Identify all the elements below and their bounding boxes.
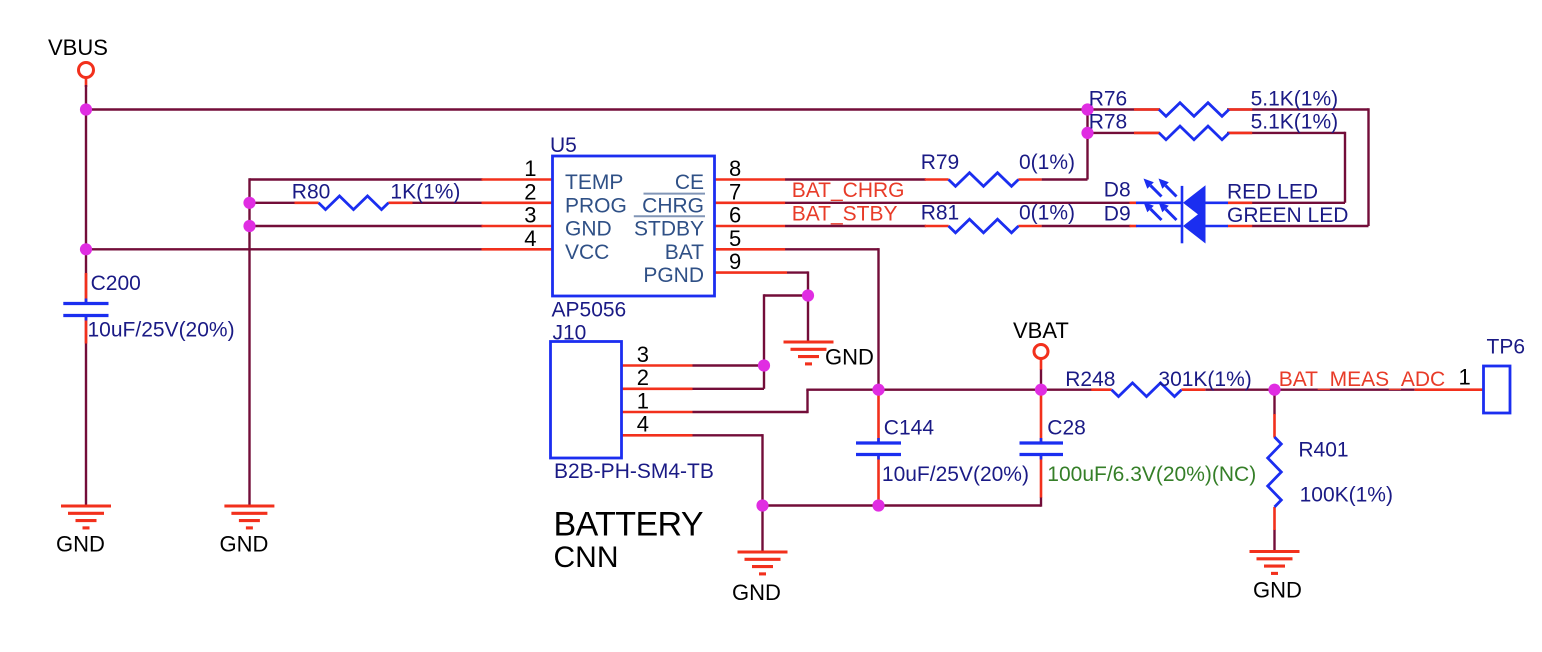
designator D8 and name xyxy=(1104,179,1318,204)
svg-text:C200: C200 xyxy=(91,272,141,295)
wire VBAT terminal stub lower part xyxy=(1040,369,1042,390)
svg-text:R248: R248 xyxy=(1065,368,1115,391)
pin stub U5 pin3 xyxy=(482,225,553,228)
node VBUS terminal circle xyxy=(79,63,94,88)
pin stub U5 pin7 xyxy=(715,202,786,205)
svg-text:R76: R76 xyxy=(1089,88,1128,111)
pin number J10 3 xyxy=(637,342,649,367)
pin number J10 4 xyxy=(637,412,649,437)
wire C28 bottom lead lower part xyxy=(1040,497,1042,507)
ground at PGND xyxy=(784,342,834,364)
designator C28 and value xyxy=(1047,417,1256,487)
svg-text:GND: GND xyxy=(732,580,781,605)
designator D9 and name xyxy=(1104,203,1349,228)
designator J10 xyxy=(553,322,587,345)
wire VBUS vertical from terminal to GND xyxy=(85,85,87,505)
lead R79 right xyxy=(1018,178,1041,181)
pin stub TP6 xyxy=(1415,388,1484,391)
svg-text:1K(1%): 1K(1%) xyxy=(390,181,460,204)
lead R401 bottom xyxy=(1273,507,1276,530)
wire CE pin8 to R79 xyxy=(785,178,926,180)
wire BAT_STBY pin6 to R81 xyxy=(785,225,926,227)
resistor R401 body xyxy=(1268,437,1282,507)
svg-text:8: 8 xyxy=(729,156,741,181)
svg-text:7: 7 xyxy=(729,179,741,204)
pin stub U5 pin6 xyxy=(715,225,786,228)
pin stub J10 pin2 xyxy=(621,387,693,390)
wire R78 output to RED LED vertical xyxy=(1227,132,1345,203)
wire VBAT node row to R248 xyxy=(879,389,1092,391)
wire J10 pin2 up to junction xyxy=(693,366,765,389)
svg-text:3: 3 xyxy=(524,203,536,228)
pin stub U5 pin5 xyxy=(715,248,786,251)
wire PROG row segments around R80 xyxy=(250,202,483,204)
lead D8 left xyxy=(1130,202,1137,205)
wire GND pin3 row xyxy=(250,225,483,227)
pin number U5 2 xyxy=(524,179,536,204)
designator R81 and value xyxy=(921,202,1075,225)
svg-text:2: 2 xyxy=(637,365,649,390)
wire R79 output up to R76/R78 junctions xyxy=(1042,110,1088,180)
svg-text:GND: GND xyxy=(565,218,612,241)
svg-text:5.1K(1%): 5.1K(1%) xyxy=(1251,110,1339,133)
wire R248 output to BAT_MEAS_ADC node xyxy=(1205,389,1414,391)
svg-text:D8: D8 xyxy=(1104,179,1131,202)
lead R78 right xyxy=(1228,132,1252,135)
svg-text:2: 2 xyxy=(524,179,536,204)
wire left vertical to GND xyxy=(248,178,250,505)
junction VCC tap xyxy=(80,243,92,255)
resistor R248 body xyxy=(1112,383,1182,397)
junction BAT C144 node xyxy=(872,384,884,396)
resistor R79 body xyxy=(949,173,1019,187)
svg-text:5: 5 xyxy=(729,226,741,251)
label GND at PGND xyxy=(825,345,874,370)
svg-text:VBUS: VBUS xyxy=(48,35,108,60)
svg-text:TP6: TP6 xyxy=(1487,336,1526,359)
junction R78 input xyxy=(1081,127,1093,139)
net label BAT_CHRG xyxy=(792,179,905,202)
designator U5 xyxy=(550,134,577,157)
wire VBUS top horizontal rail xyxy=(86,108,1369,110)
wire VCC pin4 row from VBUS xyxy=(86,248,483,250)
svg-text:D9: D9 xyxy=(1104,203,1131,226)
wire R401 bottom to GND xyxy=(1273,530,1275,553)
pin stub J10 pin1 xyxy=(621,411,693,414)
svg-text:GND: GND xyxy=(1253,578,1302,603)
LED D8 symbol xyxy=(1136,179,1228,221)
lead D9 left xyxy=(1130,225,1137,228)
resistor R80 body xyxy=(319,196,389,210)
svg-text:100K(1%): 100K(1%) xyxy=(1300,484,1393,507)
wire BAT pin5 to C144 node xyxy=(785,248,879,390)
pin number U5 4 xyxy=(524,226,536,251)
lead R78 left xyxy=(1134,132,1159,135)
net label BAT_STBY xyxy=(792,202,898,225)
lead R79 left xyxy=(925,178,949,181)
svg-text:C28: C28 xyxy=(1047,417,1086,440)
ground under C200 xyxy=(61,506,111,528)
svg-text:3: 3 xyxy=(637,342,649,367)
node VBAT terminal circle xyxy=(1034,345,1048,370)
lead C200 top xyxy=(85,273,88,303)
svg-text:RED LED: RED LED xyxy=(1227,181,1318,204)
wire PGND pin9 to GND node xyxy=(787,271,808,342)
ground under left vertical xyxy=(224,506,274,528)
lead R248 right xyxy=(1181,388,1205,391)
svg-text:R78: R78 xyxy=(1089,110,1128,133)
designator R79 and value xyxy=(921,151,1075,174)
wire R81 output to D9 LED xyxy=(1042,225,1131,227)
pin stub U5 pin2 xyxy=(482,202,553,205)
svg-text:4: 4 xyxy=(524,226,536,251)
pin number U5 6 xyxy=(729,203,741,228)
svg-text:0(1%): 0(1%) xyxy=(1019,151,1075,174)
svg-text:6: 6 xyxy=(729,203,741,228)
label GND under R401 xyxy=(1253,578,1302,603)
svg-text:BATTERY: BATTERY xyxy=(554,506,703,544)
pin number U5 5 xyxy=(729,226,741,251)
svg-text:4: 4 xyxy=(637,412,649,437)
LED D9 symbol xyxy=(1136,186,1228,244)
svg-text:100uF/6.3V(20%)(NC): 100uF/6.3V(20%)(NC) xyxy=(1047,463,1256,486)
svg-text:301K(1%): 301K(1%) xyxy=(1158,368,1251,391)
lead C144 bottom xyxy=(877,456,880,505)
svg-text:GND: GND xyxy=(56,532,105,557)
pin stub J10 pin4 xyxy=(621,434,693,437)
pin number U5 1 xyxy=(524,156,536,181)
wire R78 net from junction to resistor xyxy=(1086,132,1160,134)
lead C28 top xyxy=(1040,391,1043,442)
junction VBAT C28 node xyxy=(1035,384,1047,396)
pin number TP6 1 xyxy=(1459,365,1471,390)
pin number U5 3 xyxy=(524,203,536,228)
testpoint TP6 body xyxy=(1484,366,1511,413)
wire J10 pin3 to junction xyxy=(693,364,765,366)
lead R81 left xyxy=(925,225,949,228)
designator TP6 xyxy=(1487,336,1526,359)
op-amp U5 charger IC body xyxy=(553,156,715,296)
label GND under left vertical xyxy=(220,532,269,557)
designator R248 and value xyxy=(1065,368,1252,391)
svg-text:BAT_STBY: BAT_STBY xyxy=(792,202,898,225)
ground under J10 rail xyxy=(738,552,788,574)
wire PGND branch to J10 pins 2-3 xyxy=(764,294,809,365)
lead R80 right xyxy=(388,202,412,205)
junction PGND node xyxy=(802,289,814,301)
net label VBAT xyxy=(1013,318,1069,343)
svg-text:U5: U5 xyxy=(550,134,577,157)
svg-text:9: 9 xyxy=(729,249,741,274)
resistor R81 body xyxy=(949,219,1019,233)
lead R76 left xyxy=(1134,108,1159,111)
pin number J10 1 xyxy=(637,388,649,413)
ground under R401 xyxy=(1250,552,1300,574)
lead C144 top xyxy=(877,391,880,442)
wire bottom ground rail xyxy=(763,506,1042,553)
lead R81 right xyxy=(1018,225,1041,228)
svg-text:CE: CE xyxy=(675,171,704,194)
svg-text:5.1K(1%): 5.1K(1%) xyxy=(1251,88,1339,111)
net label VBUS xyxy=(48,35,108,60)
svg-text:GND: GND xyxy=(825,345,874,370)
wire BAT_CHRG pin7 to D8 LED xyxy=(785,202,1131,204)
lead D8 right xyxy=(1228,202,1253,205)
svg-text:1: 1 xyxy=(1459,365,1471,390)
lead R248 left xyxy=(1091,388,1111,391)
svg-text:R79: R79 xyxy=(921,151,960,174)
pin stub U5 pin9 xyxy=(715,271,788,274)
lead C200 bottom xyxy=(85,317,88,344)
resistor R78 body xyxy=(1159,126,1229,140)
svg-text:GND: GND xyxy=(220,532,269,557)
label BATTERY CNN xyxy=(554,506,703,574)
svg-text:CHRG: CHRG xyxy=(642,194,704,217)
wire BAT_MEAS_ADC node down to R401 xyxy=(1273,390,1275,415)
junction R76 input xyxy=(1081,103,1093,115)
designator C144 and value xyxy=(882,417,1029,487)
pin stub J10 pin3 xyxy=(621,364,693,367)
wire TEMP pin1 row xyxy=(250,178,483,180)
svg-text:1: 1 xyxy=(524,156,536,181)
wire R76 output to GREEN LED right vertical xyxy=(1252,108,1369,226)
pin number U5 7 xyxy=(729,179,741,204)
junction BAT_MEAS_ADC node xyxy=(1268,384,1280,396)
designator R78 and value xyxy=(1089,110,1338,133)
svg-text:TEMP: TEMP xyxy=(565,171,623,194)
label GND under J10 rail xyxy=(732,580,781,605)
label GND under C200 xyxy=(56,532,105,557)
svg-text:GREEN LED: GREEN LED xyxy=(1227,204,1348,227)
svg-text:PROG: PROG xyxy=(565,194,627,217)
svg-text:CNN: CNN xyxy=(554,541,619,574)
junction C144 bottom rail xyxy=(872,499,884,511)
wire J10 pin4 down to ground rail xyxy=(693,434,763,505)
svg-text:B2B-PH-SM4-TB: B2B-PH-SM4-TB xyxy=(554,460,714,483)
svg-text:VBAT: VBAT xyxy=(1013,318,1069,343)
pin names U5 right with overlines xyxy=(634,171,705,287)
pin number U5 8 xyxy=(729,156,741,181)
pin stub U5 pin4 xyxy=(482,248,553,251)
lead R76 right xyxy=(1228,108,1252,111)
svg-text:0(1%): 0(1%) xyxy=(1019,202,1075,225)
net label BAT_MEAS_ADC xyxy=(1279,368,1446,391)
svg-text:R80: R80 xyxy=(292,181,331,204)
designator R76 and value xyxy=(1089,88,1338,111)
designator R80 and value xyxy=(292,181,461,204)
pin names U5 left xyxy=(565,171,627,264)
junction J10 pins 2-3 xyxy=(758,359,770,371)
svg-text:BAT_MEAS_ADC: BAT_MEAS_ADC xyxy=(1279,368,1446,391)
lead D9 right xyxy=(1228,225,1253,228)
pin number J10 2 xyxy=(637,365,649,390)
lead R401 top xyxy=(1273,414,1276,438)
designator R401 and value xyxy=(1298,439,1393,507)
pin stub U5 pin1 xyxy=(482,178,553,181)
lead R80 left xyxy=(295,202,319,205)
value AP5056 xyxy=(552,299,627,322)
svg-text:J10: J10 xyxy=(553,322,587,345)
wire J10 pin1 to VBAT node xyxy=(693,390,879,414)
capacitor C200 body xyxy=(63,299,108,321)
resistor R76 body xyxy=(1159,103,1229,117)
pin stub U5 pin8 xyxy=(715,178,786,181)
junction J10 pin4 rail xyxy=(756,499,768,511)
svg-text:10uF/25V(20%): 10uF/25V(20%) xyxy=(882,463,1029,486)
capacitor C144 body xyxy=(856,438,901,460)
connector J10 body xyxy=(551,342,622,459)
svg-text:R401: R401 xyxy=(1298,439,1348,462)
capacitor C28 body xyxy=(1020,438,1064,460)
junction VBUS top rail xyxy=(80,103,92,115)
svg-text:STDBY: STDBY xyxy=(634,218,704,241)
lead C28 bottom xyxy=(1040,456,1043,498)
pin number U5 9 xyxy=(729,249,741,274)
svg-text:AP5056: AP5056 xyxy=(552,299,627,322)
svg-text:R81: R81 xyxy=(921,202,960,225)
value B2B-PH-SM4-TB xyxy=(554,460,714,483)
junction R80 input xyxy=(243,197,255,209)
svg-text:C144: C144 xyxy=(884,417,935,440)
svg-text:10uF/25V(20%): 10uF/25V(20%) xyxy=(88,319,235,342)
junction GND pin tap xyxy=(243,220,255,232)
svg-text:1: 1 xyxy=(637,388,649,413)
svg-text:VCC: VCC xyxy=(565,241,609,264)
svg-text:PGND: PGND xyxy=(643,264,704,287)
svg-text:BAT_CHRG: BAT_CHRG xyxy=(792,179,905,202)
designator C200 and value xyxy=(88,272,235,342)
svg-text:BAT: BAT xyxy=(665,241,704,264)
